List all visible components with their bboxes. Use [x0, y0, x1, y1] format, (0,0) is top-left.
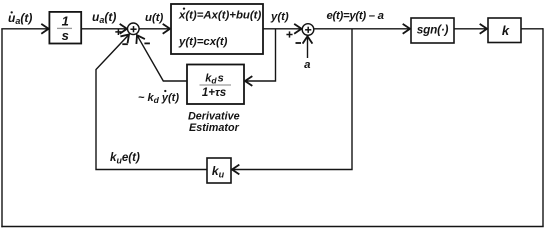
summing junction 2 [302, 24, 314, 36]
wire: integrator output ua(t) to summing junction 1 [81, 28, 127, 30]
sign + at summing junction 1 left input [115, 29, 121, 35]
svg-text:ua(t): ua(t) [92, 10, 116, 25]
wire: outer feedback from k block output to right corner [521, 28, 543, 30]
wire: sgn output to k block [454, 28, 487, 30]
svg-text:k: k [502, 23, 510, 38]
wire: a input arrow into summing junction 2 [307, 36, 309, 58]
svg-text:s: s [62, 28, 69, 43]
wire: y(t) from plant to summing junction 2 [263, 28, 302, 30]
svg-text:y(t): y(t) [270, 11, 289, 23]
sign - at summing junction 2 lower input [296, 42, 302, 44]
wire: right vertical of outer feedback loop [542, 28, 544, 226]
svg-text:1+τs: 1+τs [202, 87, 226, 99]
svg-text:a: a [304, 59, 310, 71]
wire: u(t) from summing junction 1 to plant block [139, 28, 170, 30]
ku block [207, 158, 231, 183]
svg-text:y(t)=cx(t): y(t)=cx(t) [178, 36, 228, 48]
wire: input u̇a(t) into integrator 1/s [1, 28, 48, 30]
svg-text:Derivative: Derivative [188, 110, 240, 122]
derivative estimator block kd s / (1+ts) [187, 65, 244, 105]
wire: e(t) from summing junction 2 to sgn block [314, 28, 410, 30]
sign - at summing junction 1 lower-left input [122, 43, 128, 45]
wire: bottom horizontal of outer feedback loop [1, 226, 543, 228]
integrator block 1/s [49, 12, 81, 44]
summing junction 1 [128, 23, 140, 35]
svg-text:Estimator: Estimator [189, 122, 240, 134]
wire: ku output feedback left, up and diagonal into summing junction 1 [96, 35, 207, 170]
sgn block [411, 18, 454, 43]
wire: left vertical of outer feedback loop [1, 29, 3, 227]
svg-text:sgn(·): sgn(·) [417, 23, 449, 37]
svg-text:e(t)=y(t) – a: e(t)=y(t) – a [327, 10, 384, 22]
label u̇a(t) input signal [8, 11, 32, 26]
sign - at summing junction 1 lower-right input [144, 42, 150, 44]
svg-text:x(t)=Ax(t)+bu(t): x(t)=Ax(t)+bu(t) [178, 9, 261, 21]
svg-text:1: 1 [62, 13, 69, 28]
plant block x(t)=Ax(t)+bu(t), y(t)=cx(t) [171, 4, 263, 54]
svg-text:~ kd y(t): ~ kd y(t) [138, 92, 179, 105]
svg-text:kue(t): kue(t) [110, 151, 140, 165]
wire: derivative estimator output diagonal into summing junction 1 [137, 35, 187, 81]
svg-text:u(t): u(t) [145, 12, 164, 24]
label ~ kd y(t) derivative feedback [138, 90, 179, 105]
wire: branch from e(t) down to ku block input [232, 29, 352, 170]
sign + at summing junction 2 left input [286, 31, 292, 37]
k block [488, 18, 521, 43]
wire: branch from y(t) down to derivative estimator input [245, 29, 276, 81]
